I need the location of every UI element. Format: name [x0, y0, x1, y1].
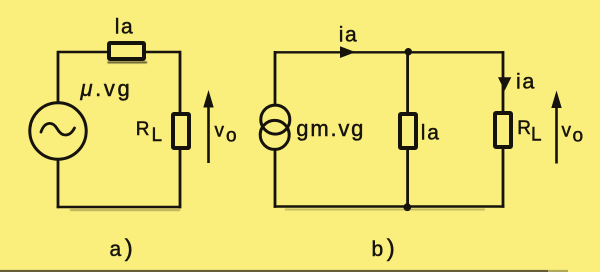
resistor RL (a) [173, 114, 189, 148]
wire: a top rail [58, 51, 180, 53]
junction dot top (node between ra and RL) [405, 48, 412, 55]
svg-text:ia: ia [339, 23, 359, 46]
current arrow ia on b top rail [340, 46, 356, 58]
svg-text:L: L [531, 125, 542, 146]
wire: a left vertical (source top lead) [57, 51, 60, 103]
wire: b bottom rail [274, 205, 505, 208]
svg-text:v: v [562, 121, 572, 142]
wire: a left vertical (source bottom lead) [57, 159, 60, 208]
resistor ra (b, middle branch) [400, 114, 416, 148]
current arrow ia (down, into RL) [498, 77, 511, 90]
wire: b top rail [275, 51, 503, 53]
resistor ra (series, top of a) [109, 43, 144, 59]
svg-text:ia: ia [516, 69, 536, 93]
svg-text:la: la [115, 15, 134, 38]
ghost line under b bottom rail [285, 209, 485, 210]
sine symbol inside source [41, 123, 75, 135]
svg-text:L: L [152, 125, 163, 146]
svg-text:R: R [517, 118, 531, 139]
svg-text:μ.vg: μ.vg [80, 76, 133, 101]
junction dot bottom [403, 203, 411, 211]
bottom page edge shadow [0, 270, 548, 272]
voltage source U (a) [30, 103, 86, 159]
svg-text:gm.vg: gm.vg [296, 116, 365, 141]
wire: b left vertical (source top lead) [274, 51, 277, 105]
wire: a bottom rail [57, 206, 181, 209]
svg-text:o: o [226, 125, 237, 146]
wire: b right vertical [502, 51, 505, 208]
svg-text:v: v [215, 120, 225, 141]
svg-text:a): a) [110, 235, 137, 262]
ghost line under resistor ra [108, 61, 148, 63]
svg-text:b): b) [372, 235, 399, 262]
resistor RL (b) [495, 113, 511, 147]
wire: b middle vertical [406, 51, 409, 208]
current source gm.vg (two overlapping circles) [261, 105, 290, 134]
wire: a right vertical [179, 51, 182, 208]
svg-text:la: la [421, 122, 441, 145]
arrow vo (b) [555, 102, 558, 164]
ghost line under a bottom rail [70, 209, 180, 211]
arrow vo (a) [207, 102, 210, 163]
svg-text:R: R [136, 119, 150, 140]
wire: b left vertical (source bottom lead) [274, 150, 277, 208]
svg-text:o: o [573, 126, 584, 147]
